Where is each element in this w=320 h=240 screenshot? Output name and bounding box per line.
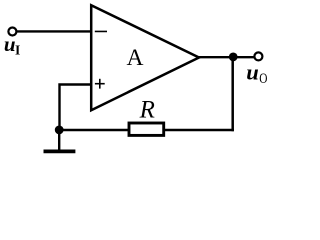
wire: junction to resistor left side xyxy=(60,129,129,131)
plus sign (non-inverting input) xyxy=(95,83,105,85)
wire: feedback vertical from output node down xyxy=(231,57,234,131)
input terminal circle xyxy=(8,28,16,36)
op-amp U1 triangle xyxy=(91,5,199,110)
minus sign (inverting input) xyxy=(95,30,107,32)
wire: feedback bottom, resistor right side to vertical xyxy=(165,129,234,131)
ground bar xyxy=(44,150,76,154)
svg-text:u: u xyxy=(4,32,16,56)
svg-text:O: O xyxy=(259,71,267,87)
svg-text:R: R xyxy=(139,96,155,123)
svg-text:A: A xyxy=(127,45,144,71)
resistor R xyxy=(129,123,164,135)
svg-text:I: I xyxy=(15,43,20,58)
svg-text:u: u xyxy=(246,59,259,84)
output terminal circle xyxy=(254,52,262,60)
wire: op-amp output to output terminal xyxy=(198,56,256,58)
ground stem xyxy=(58,130,60,150)
output junction dot xyxy=(229,53,238,62)
wire: input terminal to op-amp inverting input xyxy=(16,30,91,32)
wire: op-amp non-inverting input, left then down to junction xyxy=(60,85,92,131)
junction dot at non-inverting/ground node xyxy=(55,125,64,134)
